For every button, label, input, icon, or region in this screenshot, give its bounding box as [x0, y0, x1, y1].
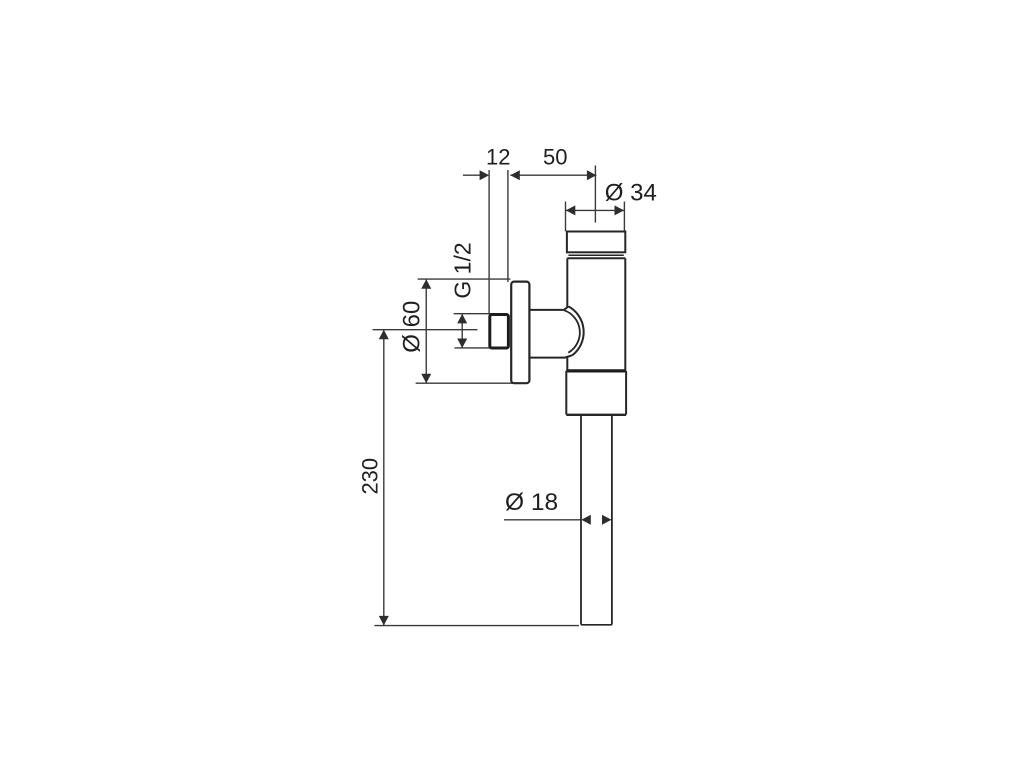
dim D60 line — [425, 279, 427, 383]
valve lower body right edge — [625, 371, 627, 415]
svg-text:Ø 34: Ø 34 — [605, 179, 657, 206]
arrowhead dim 50 left — [510, 170, 520, 180]
dim D60 bottom reference line — [416, 382, 527, 384]
svg-text:230: 230 — [358, 458, 383, 495]
wall nut — [490, 315, 509, 349]
valve body left edge lower — [566, 357, 568, 371]
svg-text:Ø 60: Ø 60 — [399, 301, 426, 353]
inlet bullet outer curve — [568, 306, 583, 355]
inlet bullet inner curve — [564, 310, 580, 353]
dim D60 top reference line — [418, 278, 511, 280]
valve lower body left edge — [565, 371, 567, 415]
dim 50 extension line at valve centre — [594, 166, 596, 223]
arrowhead dim D18 right — [602, 515, 612, 525]
cap groove ring — [568, 254, 623, 256]
outlet pipe bottom edge — [581, 624, 612, 626]
valve head cap — [567, 232, 625, 253]
arrowhead dim G12 down — [457, 339, 467, 349]
dim D34 extension left — [565, 202, 567, 232]
valve body right edge — [624, 258, 626, 371]
dim D34 line — [566, 209, 624, 211]
arrowhead dim D60 up — [421, 279, 431, 289]
dim 12 extension line left — [488, 170, 490, 313]
arrowhead dim D34 left — [566, 205, 576, 215]
dim 12 extension line right — [507, 170, 509, 282]
dim 230 bottom reference line — [374, 625, 579, 627]
arrowhead dim D60 down — [421, 374, 431, 384]
dim G12 top reference line — [454, 313, 500, 315]
valve lower body bottom edge — [566, 414, 626, 416]
valve body top edge — [567, 257, 625, 259]
dim 230 line — [383, 330, 385, 626]
outlet pipe right edge — [611, 416, 613, 625]
arrowhead dim 230 down — [379, 616, 389, 626]
arrowhead dim 50 right — [587, 170, 597, 180]
valve body left edge upper — [566, 258, 568, 306]
inlet pipe top edge — [529, 306, 568, 310]
dim D34 extension right — [623, 202, 625, 232]
svg-text:12: 12 — [486, 145, 510, 170]
dim 12 tail line — [463, 174, 481, 176]
dim D18 leader line — [504, 519, 581, 521]
arrowhead dim 12 — [480, 170, 490, 180]
inlet pipe bottom edge — [529, 355, 572, 357]
dim G12 bottom reference line — [454, 347, 504, 349]
valve body thick separation line — [566, 369, 626, 372]
arrowhead dim D18 left — [581, 515, 591, 525]
svg-text:50: 50 — [543, 145, 567, 170]
wall escutcheon plate — [511, 282, 529, 384]
outlet pipe left edge — [580, 416, 582, 625]
dim G12 line — [461, 314, 463, 348]
arrowhead dim 230 up — [379, 330, 389, 340]
arrowhead dim D34 right — [615, 205, 625, 215]
centre axis line — [373, 329, 478, 331]
arrowhead dim G12 up — [457, 314, 467, 324]
dim 50 line — [510, 174, 596, 176]
svg-text:Ø 18: Ø 18 — [505, 489, 558, 516]
svg-text:G 1/2: G 1/2 — [450, 242, 476, 298]
